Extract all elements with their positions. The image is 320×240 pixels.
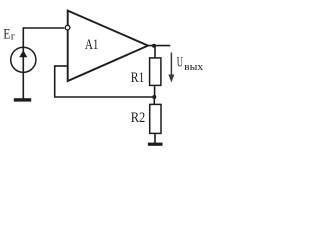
- current source internal line: [22, 47, 24, 72]
- svg-text:R2: R2: [131, 110, 146, 126]
- wire top horizontal from source to input node: [23, 27, 65, 29]
- ground left: [14, 98, 31, 101]
- svg-text:вых: вых: [184, 62, 204, 73]
- input node circle on A1: [65, 25, 70, 30]
- current source arrow: [19, 50, 27, 57]
- wire feedback vertical: [54, 65, 56, 97]
- arrow Uvyh output voltage: [170, 53, 172, 77]
- wire R2 top lead: [153, 97, 155, 105]
- ground right: [148, 143, 163, 146]
- svg-text:Е: Е: [3, 27, 10, 43]
- wire inverting input horizontal: [55, 65, 68, 67]
- resistor R1: [150, 58, 161, 86]
- current source G1 circle: [11, 47, 36, 72]
- wire feedback bottom horizontal: [54, 96, 154, 98]
- wire R1 bottom lead: [154, 85, 156, 97]
- svg-text:U: U: [177, 55, 183, 71]
- op-amp A1 triangle: [68, 11, 148, 81]
- node feedback junction dot: [152, 95, 156, 99]
- wire source bottom lead: [22, 72, 24, 99]
- node output junction dot: [152, 44, 156, 48]
- wire R2 bottom lead: [154, 133, 156, 143]
- resistor R2: [150, 104, 161, 133]
- svg-text:А1: А1: [85, 37, 99, 53]
- wire source top lead: [22, 27, 24, 47]
- svg-text:г: г: [11, 32, 16, 43]
- wire output from A1 apex: [148, 45, 171, 47]
- wire R1 top lead: [154, 46, 156, 59]
- svg-text:R1: R1: [131, 70, 145, 86]
